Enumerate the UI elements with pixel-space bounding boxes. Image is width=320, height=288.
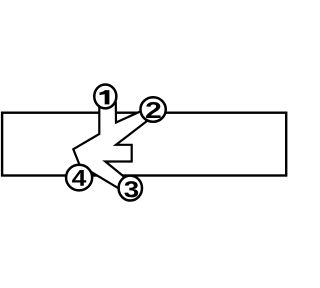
node 1 circle — [94, 84, 116, 108]
digit 4 — [72, 170, 86, 186]
panel rectangle — [2, 113, 286, 176]
digit 2 — [146, 102, 161, 118]
node 3 circle — [119, 176, 142, 201]
node 2 circle — [140, 97, 165, 122]
zigzag arrow shape — [73, 103, 152, 194]
digit 3 — [124, 181, 138, 197]
digit 1 — [100, 90, 110, 104]
node 4 circle — [66, 165, 92, 191]
